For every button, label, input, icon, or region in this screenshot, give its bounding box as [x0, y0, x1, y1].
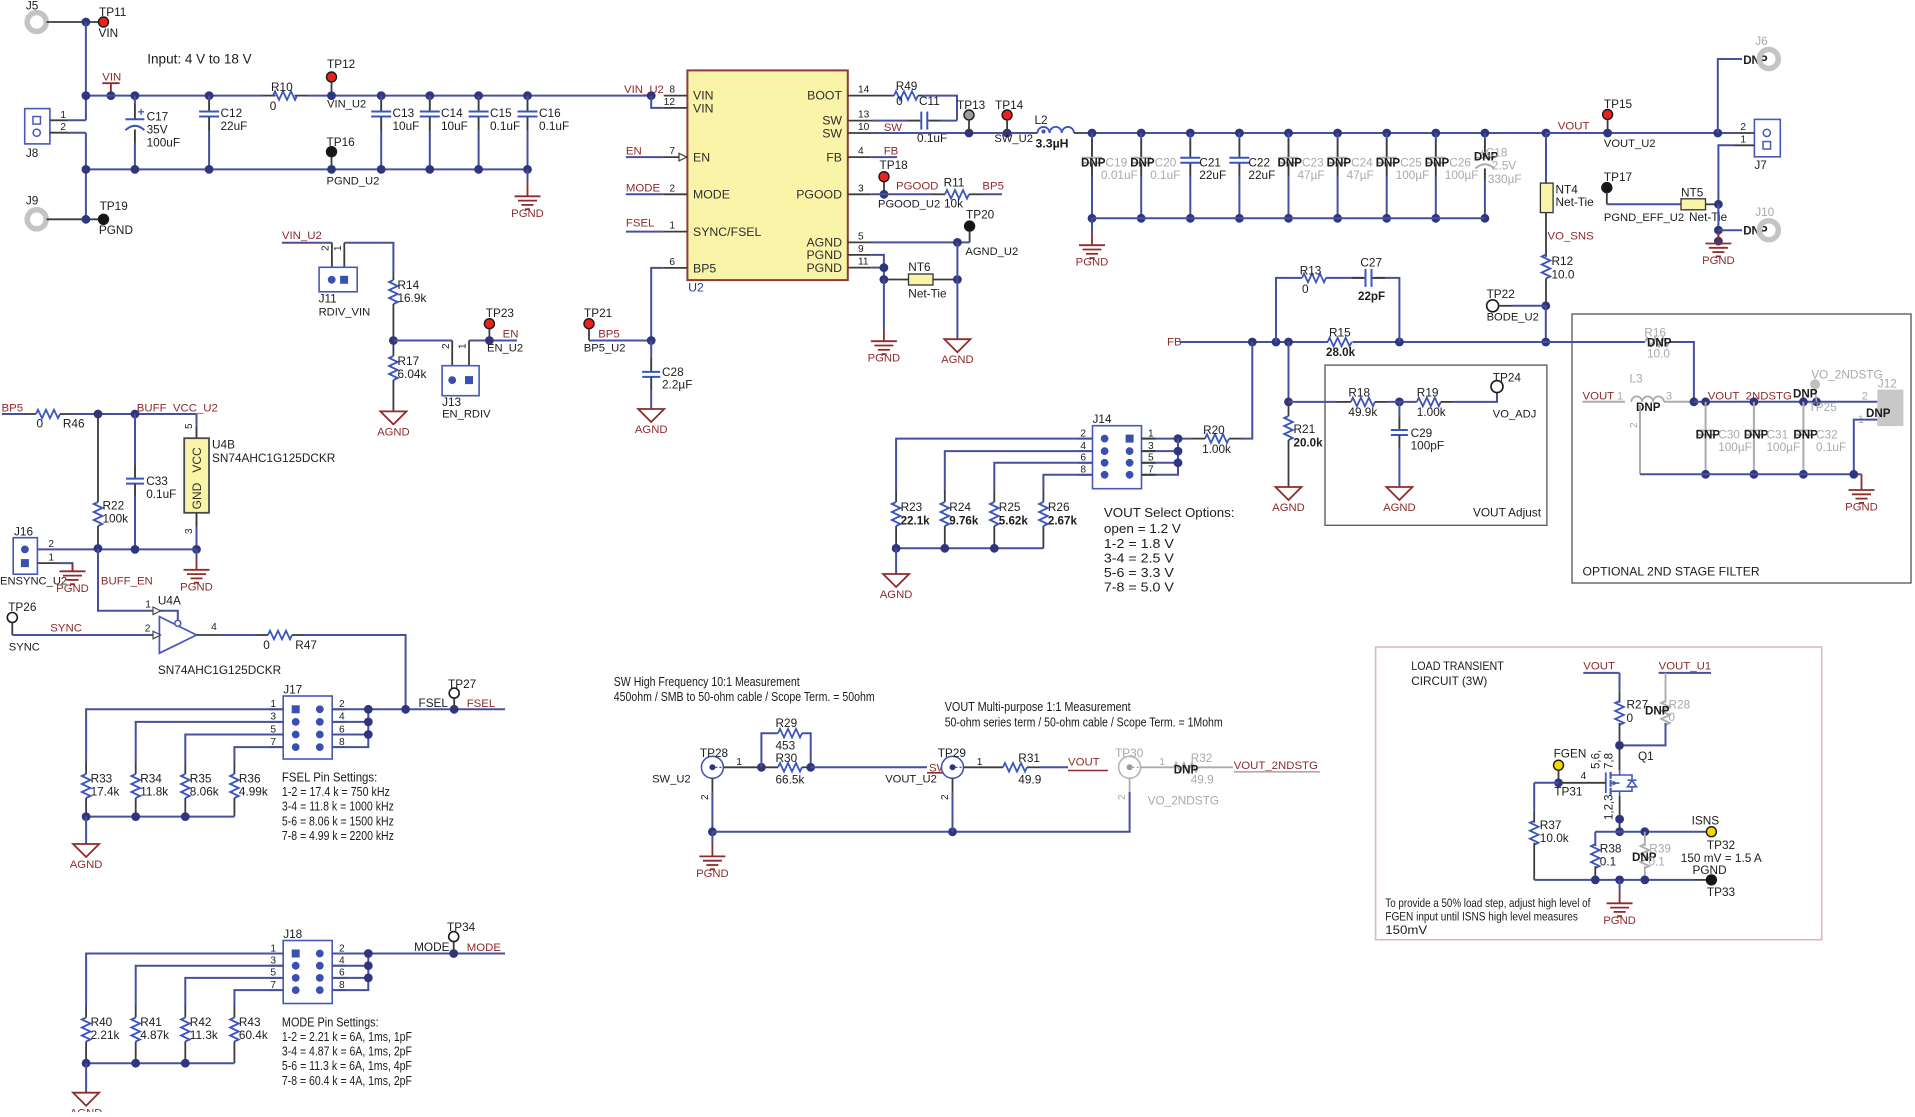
junction [449, 949, 458, 958]
junction [192, 545, 201, 554]
test point TP15 [1603, 110, 1613, 120]
svg-text:6.04k: 6.04k [398, 367, 427, 381]
junction [1541, 338, 1550, 347]
svg-text:C12: C12 [221, 106, 243, 120]
connector J13 [442, 366, 479, 396]
svg-text:R22: R22 [103, 499, 125, 513]
svg-text:VOUT_U2: VOUT_U2 [885, 774, 937, 786]
wire TP17 to NT5 [1607, 203, 1681, 205]
wire filter bottom rail [1640, 473, 1862, 475]
wire J7 pin2 [1734, 132, 1754, 134]
connector J9 [27, 210, 46, 229]
junction [1615, 741, 1624, 750]
svg-text:2: 2 [940, 794, 951, 800]
wire L3 tap [1639, 405, 1641, 474]
svg-text:5,6,: 5,6, [1591, 750, 1603, 769]
resistor R35 [184, 762, 186, 774]
wire AGND_U2 node [872, 241, 970, 243]
resistor R39 DNP [1644, 832, 1646, 846]
svg-text:10.0k: 10.0k [1540, 831, 1569, 845]
filter box [1572, 314, 1911, 583]
inductor L2 [1031, 132, 1037, 134]
wire Q1 gate [1559, 782, 1606, 784]
wire PGOOD [871, 193, 932, 195]
svg-text:R31: R31 [1018, 751, 1040, 765]
svg-text:7: 7 [669, 146, 675, 157]
svg-text:TP19: TP19 [100, 199, 128, 213]
svg-text:4.87k: 4.87k [140, 1028, 169, 1042]
svg-text:1,2,3: 1,2,3 [1604, 794, 1616, 820]
svg-text:C17: C17 [147, 110, 169, 124]
net label VOUT meas [1040, 766, 1068, 768]
svg-text:8.06k: 8.06k [190, 785, 219, 799]
svg-text:3-4 = 2.5 V: 3-4 = 2.5 V [1104, 551, 1174, 566]
svg-text:DNP: DNP [1744, 429, 1769, 442]
svg-text:J7: J7 [1754, 158, 1766, 172]
svg-text:PGND_U2: PGND_U2 [327, 176, 380, 188]
wire BP5 node [589, 340, 651, 342]
junction [940, 544, 949, 553]
resistor R13 [1290, 277, 1302, 279]
svg-text:TP34: TP34 [447, 920, 476, 934]
ground PGND meas [711, 832, 713, 844]
svg-text:2: 2 [1117, 794, 1128, 800]
junction [131, 165, 140, 174]
pin 11 PGND [848, 267, 872, 269]
svg-text:J18: J18 [283, 927, 302, 941]
junction [647, 91, 656, 100]
wire J17 pin5 [185, 735, 283, 763]
net tie NT6 [884, 279, 909, 281]
svg-text:VO_2NDSTG: VO_2NDSTG [1148, 794, 1219, 808]
svg-text:EN: EN [626, 145, 642, 157]
svg-text:0.1uF: 0.1uF [490, 119, 520, 133]
test point TP22 [1487, 300, 1499, 312]
junction [1713, 129, 1722, 138]
svg-text:J9: J9 [26, 194, 38, 208]
svg-text:EN: EN [503, 329, 519, 341]
wire J14 right bus [1142, 439, 1179, 475]
svg-text:10.0: 10.0 [1647, 347, 1670, 361]
svg-text:R24: R24 [949, 500, 971, 514]
pin 7 EN [664, 156, 688, 158]
svg-text:R19: R19 [1417, 386, 1439, 400]
svg-text:+: + [138, 107, 145, 119]
junction [82, 812, 91, 821]
svg-text:1-2 = 17.4 k = 750 kHz: 1-2 = 17.4 k = 750 kHz [282, 784, 390, 799]
svg-text:FSEL: FSEL [626, 218, 655, 230]
svg-text:BODE_U2: BODE_U2 [1487, 312, 1539, 324]
svg-text:EN: EN [693, 151, 710, 165]
junction [1541, 301, 1550, 310]
svg-text:RDIV_VIN: RDIV_VIN [319, 307, 371, 319]
svg-text:LOAD TRANSIENT: LOAD TRANSIENT [1411, 660, 1504, 673]
junction [1714, 237, 1723, 246]
wire J11 pin1 [344, 243, 393, 271]
junction [1812, 397, 1821, 406]
svg-text:9.76k: 9.76k [949, 515, 979, 528]
capacitor C31 DNP [1753, 402, 1755, 431]
pin 4 FB [848, 156, 871, 158]
wire J16 pin1 [37, 562, 58, 564]
svg-text:BP5: BP5 [598, 329, 620, 341]
resistor R38 [1594, 832, 1596, 846]
junction [806, 763, 815, 772]
wire J14 pin4 [945, 451, 1093, 490]
svg-text:MODE: MODE [414, 940, 450, 954]
svg-text:R23: R23 [901, 500, 923, 514]
test point TP25 DNP [1810, 379, 1820, 389]
capacitor C16 [523, 91, 532, 100]
svg-text:TP24: TP24 [1493, 371, 1522, 385]
svg-text:SYNC: SYNC [50, 623, 82, 635]
svg-text:2.67k: 2.67k [1048, 515, 1078, 528]
junction [82, 18, 91, 27]
svg-text:2: 2 [48, 539, 54, 550]
svg-text:BP5: BP5 [693, 261, 716, 275]
test point TP18 [879, 172, 889, 182]
svg-text:R18: R18 [1348, 386, 1370, 400]
svg-text:open = 1.2 V: open = 1.2 V [1104, 521, 1181, 536]
junction [94, 410, 103, 419]
junction [965, 129, 974, 138]
wire PGND_EFF down [1717, 204, 1719, 243]
junction [401, 705, 410, 714]
wire FB row [1180, 341, 1328, 343]
junction [450, 705, 459, 714]
svg-text:OPTIONAL 2ND STAGE FILTER: OPTIONAL 2ND STAGE FILTER [1583, 565, 1760, 579]
svg-text:VOUT: VOUT [1068, 757, 1100, 769]
pin 12 VIN [651, 96, 664, 108]
svg-text:0: 0 [896, 94, 903, 108]
svg-text:MODE: MODE [467, 942, 502, 954]
svg-text:VIN: VIN [99, 26, 119, 40]
svg-text:TP18: TP18 [880, 158, 909, 172]
svg-text:VOUT: VOUT [1583, 390, 1615, 402]
wire meas gnd bus [712, 831, 1130, 833]
test point TP34 [449, 932, 459, 942]
svg-text:VOUT Select Options:: VOUT Select Options: [1104, 505, 1235, 520]
junction [131, 812, 140, 821]
svg-text:AGND: AGND [1272, 502, 1305, 514]
svg-text:0: 0 [37, 417, 44, 431]
svg-text:TP23: TP23 [486, 306, 515, 320]
svg-text:47µF: 47µF [1347, 168, 1374, 182]
junction [1174, 458, 1183, 467]
svg-text:GND: GND [190, 482, 204, 509]
wire J17 right bus [332, 709, 369, 747]
svg-text:C11: C11 [919, 94, 940, 108]
test point ISNS TP32 [1707, 831, 1712, 833]
svg-text:50-ohm series term / 50-ohm ca: 50-ohm series term / 50-ohm cable / Scop… [945, 715, 1223, 730]
svg-text:22uF: 22uF [1248, 168, 1275, 182]
svg-text:330µF: 330µF [1488, 172, 1522, 186]
svg-text:SW High Frequency 10:1 Measure: SW High Frequency 10:1 Measurement [614, 674, 800, 689]
svg-text:CIRCUIT (3W): CIRCUIT (3W) [1411, 675, 1487, 688]
capacitor C12 [205, 91, 214, 100]
svg-text:ISNS: ISNS [1692, 814, 1720, 828]
wire J18 pin1 [86, 954, 283, 1006]
junction [708, 827, 717, 836]
svg-text:TP27: TP27 [448, 677, 476, 691]
capacitor C13 [377, 91, 386, 100]
wire J14 pin1 row [1142, 438, 1193, 440]
resistor R42 [184, 1006, 186, 1018]
wire ISNS row [1595, 831, 1706, 833]
junction [953, 275, 962, 284]
svg-text:TP29: TP29 [938, 746, 966, 760]
wire to FB row [1545, 306, 1547, 342]
svg-text:3: 3 [1666, 390, 1672, 402]
svg-text:10: 10 [858, 122, 870, 133]
svg-text:0.1: 0.1 [1648, 855, 1664, 869]
junction [1615, 876, 1624, 885]
test point TP27 [449, 688, 459, 698]
svg-text:MODE: MODE [626, 183, 661, 195]
test point TP30 DNP [1119, 756, 1141, 778]
capacitor C19 DNP [1088, 129, 1097, 138]
junction [181, 812, 190, 821]
wire J18 pin7 [234, 990, 283, 1005]
svg-text:PGND: PGND [1076, 257, 1109, 269]
wire J13 pin2 stub [451, 341, 453, 366]
svg-text:R29: R29 [776, 716, 798, 730]
capacitor C25 DNP [1382, 129, 1391, 138]
ground PGND cap bank [1091, 218, 1093, 233]
svg-text:VIN_U2: VIN_U2 [282, 230, 322, 242]
ground PGND U4B [196, 549, 198, 557]
junction [757, 763, 766, 772]
svg-text:2: 2 [60, 122, 66, 133]
resistor R17 [392, 341, 394, 357]
svg-text:0.1uF: 0.1uF [539, 119, 569, 133]
wire U4B gnd pin [196, 513, 198, 527]
svg-text:AGND: AGND [377, 426, 410, 438]
wire J14 pin6 [994, 463, 1092, 490]
svg-text:+C18: +C18 [1479, 146, 1508, 160]
junction [1272, 338, 1281, 347]
svg-text:Q1: Q1 [1638, 749, 1654, 763]
resistor R19 [1417, 398, 1441, 407]
ground PGND load [1619, 880, 1621, 891]
svg-text:1: 1 [333, 245, 344, 251]
svg-text:6: 6 [669, 257, 675, 268]
svg-text:J5: J5 [26, 0, 39, 13]
svg-text:4: 4 [1581, 771, 1587, 782]
wire gnd row [37, 548, 196, 550]
wire PGND rail [86, 168, 528, 170]
svg-text:35V: 35V [147, 123, 168, 137]
svg-text:100µF: 100µF [1445, 168, 1479, 182]
ground AGND mode [73, 1093, 99, 1106]
test point TP23 [484, 319, 494, 329]
junction [1640, 827, 1649, 836]
svg-text:49.9: 49.9 [1018, 773, 1041, 787]
junction [1690, 397, 1699, 406]
svg-text:TP32: TP32 [1707, 838, 1735, 852]
wire J14 pin2 [896, 439, 1092, 490]
svg-text:R37: R37 [1540, 818, 1562, 832]
svg-text:U4B: U4B [212, 438, 235, 452]
junction [94, 544, 103, 553]
svg-text:PGOOD: PGOOD [896, 181, 938, 193]
svg-text:PGND: PGND [1702, 255, 1735, 267]
svg-text:1.00k: 1.00k [1202, 442, 1231, 456]
svg-text:R35: R35 [190, 772, 212, 786]
svg-text:R49: R49 [896, 79, 918, 93]
junction [107, 91, 116, 100]
capacitor C18 DNP electrolytic [1481, 129, 1490, 138]
wire VIN rail [86, 95, 263, 97]
resistor R22 [97, 414, 99, 502]
svg-text:R39: R39 [1649, 842, 1671, 856]
buffer U4B [184, 438, 209, 513]
test point TP21 [584, 319, 594, 329]
svg-text:R41: R41 [140, 1015, 162, 1029]
test point TP26 [7, 613, 17, 623]
svg-text:4.99k: 4.99k [239, 785, 268, 799]
svg-text:Net-Tie: Net-Tie [1556, 195, 1595, 209]
pin 1 SYNC/FSEL [664, 231, 688, 233]
resistor R33 [85, 762, 87, 774]
wire SYNC [11, 623, 13, 636]
svg-text:2: 2 [441, 343, 452, 349]
capacitor C22 [1235, 129, 1244, 138]
wire cap bank bottom rail [1092, 217, 1485, 219]
junction [1174, 447, 1183, 456]
svg-text:5: 5 [184, 423, 195, 429]
svg-text:0: 0 [1669, 710, 1676, 724]
svg-text:R47: R47 [295, 638, 317, 652]
test point TP28 [701, 756, 723, 778]
wire L2 to VOUT rail [1082, 132, 1546, 134]
svg-text:SW_U2: SW_U2 [652, 774, 691, 786]
svg-text:J13: J13 [442, 395, 461, 409]
svg-text:0.01uF: 0.01uF [1101, 168, 1138, 182]
svg-text:3: 3 [184, 528, 195, 534]
wire AGND branch [956, 242, 958, 339]
capacitor C23 DNP [1284, 129, 1293, 138]
svg-text:BP5_U2: BP5_U2 [584, 343, 626, 355]
pin 6 BP5 [664, 267, 688, 269]
svg-text:22pF: 22pF [1358, 290, 1385, 303]
svg-text:Net-Tie: Net-Tie [908, 287, 947, 301]
junction [953, 238, 962, 247]
svg-text:TP17: TP17 [1604, 170, 1632, 184]
wire to AGND mode [85, 1063, 87, 1093]
ground PGND input [527, 169, 529, 181]
junction [485, 336, 494, 345]
junction [1615, 815, 1624, 824]
svg-text:1: 1 [48, 553, 54, 564]
svg-text:SN74AHC1G125DCKR: SN74AHC1G125DCKR [158, 663, 281, 677]
wire TP30 pin1 DNP [1141, 766, 1174, 768]
wire J14 stubs [1079, 438, 1093, 440]
junction [1284, 338, 1293, 347]
svg-text:R20: R20 [1203, 423, 1225, 437]
svg-text:10k: 10k [944, 197, 963, 211]
wire to TP24 [1454, 392, 1497, 402]
VOUT adjust box [1325, 365, 1547, 525]
test point TP14 [1002, 110, 1012, 120]
svg-text:VOUT_2NDSTG: VOUT_2NDSTG [1234, 760, 1318, 772]
ground PGND J16 [72, 563, 74, 571]
svg-text:TP15: TP15 [1604, 97, 1633, 111]
svg-text:FGEN input until ISNS high lev: FGEN input until ISNS high level measure… [1385, 909, 1578, 923]
svg-text:PGND: PGND [868, 353, 901, 365]
resistor R43 [233, 1006, 235, 1018]
svg-text:L3: L3 [1630, 372, 1644, 386]
svg-text:C15: C15 [490, 106, 512, 120]
svg-text:J6: J6 [1755, 34, 1768, 48]
resistor R11 [932, 193, 945, 195]
capacitor C24 DNP [1333, 129, 1342, 138]
wire VIN_U2 divider [282, 242, 332, 244]
connector J11 [319, 267, 357, 292]
svg-text:0.1uF: 0.1uF [1816, 440, 1846, 454]
wire MODE row [332, 953, 505, 955]
wire J14 pin8 [1043, 475, 1092, 490]
junction [1714, 226, 1723, 235]
wire FSEL bottom bus [86, 816, 234, 818]
pin 9 PGND [848, 254, 872, 256]
svg-text:5-6 = 3.3 V: 5-6 = 3.3 V [1104, 565, 1174, 580]
svg-text:FGEN: FGEN [1554, 747, 1587, 761]
svg-text:R25: R25 [999, 500, 1021, 514]
test point TP13 [964, 110, 974, 120]
svg-text:5-6 = 11.3 k = 6A, 1ms, 4pF: 5-6 = 11.3 k = 6A, 1ms, 4pF [282, 1058, 412, 1073]
svg-text:28.0k: 28.0k [1326, 346, 1356, 359]
svg-text:PGND: PGND [1845, 502, 1878, 514]
svg-text:TP31: TP31 [1554, 785, 1582, 799]
svg-text:49.9: 49.9 [1191, 773, 1214, 787]
connector J8 [25, 109, 50, 144]
wire R16 to row [1669, 342, 1694, 402]
junction [1395, 338, 1404, 347]
svg-text:66.5k: 66.5k [776, 773, 805, 787]
svg-text:VO_ADJ: VO_ADJ [1493, 409, 1537, 421]
capacitor C28 [650, 341, 652, 359]
capacitor C21 [1186, 129, 1195, 138]
svg-text:1: 1 [60, 110, 66, 121]
junction [1003, 129, 1012, 138]
svg-text:AGND: AGND [880, 589, 913, 601]
junction [82, 1059, 91, 1068]
svg-text:VIN_U2: VIN_U2 [624, 84, 664, 96]
resistor R25 [993, 490, 995, 502]
svg-text:R12: R12 [1552, 254, 1574, 268]
junction [82, 91, 91, 100]
svg-text:0.1: 0.1 [1600, 855, 1616, 869]
svg-text:FB: FB [1167, 336, 1182, 348]
svg-text:VO_2NDSTG: VO_2NDSTG [1811, 368, 1882, 382]
junction [131, 545, 140, 554]
capacitor C27 [1352, 277, 1365, 279]
wire U4A output [197, 634, 221, 636]
wire PGND branch [883, 280, 885, 330]
svg-text:1: 1 [1159, 757, 1165, 768]
svg-text:49.9k: 49.9k [1348, 405, 1377, 419]
wire J17 pin1 [86, 709, 283, 762]
ground AGND R17 [380, 411, 406, 424]
capacitor C33 [134, 414, 136, 465]
wire BOOT loop [922, 96, 957, 121]
junction [131, 410, 140, 419]
svg-text:VIN: VIN [693, 101, 714, 115]
resistor R40 [85, 1006, 87, 1018]
wire J18 right bus [332, 954, 369, 991]
junction [389, 336, 398, 345]
